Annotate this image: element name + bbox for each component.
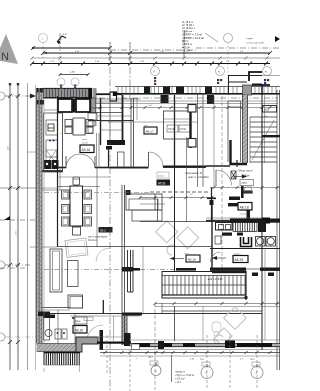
entry line y108 xyxy=(88,107,102,109)
corner gray block xyxy=(91,98,96,113)
stair newel xyxy=(244,296,247,299)
common area label xyxy=(238,169,254,186)
grid leader A xyxy=(42,43,44,61)
wall line x203 xyxy=(202,93,204,187)
wall right of door xyxy=(95,167,110,169)
entry vertical walls xyxy=(100,98,102,145)
svg-text:ПР.1: ПР.1 xyxy=(200,359,205,361)
grey jamb top xyxy=(93,88,97,98)
line x171 bottom xyxy=(171,355,173,382)
dim line y187 xyxy=(210,187,280,189)
fridge symbol xyxy=(48,124,54,131)
left thin line xyxy=(30,246,57,248)
dimension line row 1 xyxy=(32,47,34,49)
top-right note xyxy=(246,36,280,45)
left dim lines xyxy=(9,83,11,370)
label box 1 xyxy=(245,187,252,192)
svg-text:▪ 12.4: ▪ 12.4 xyxy=(175,382,182,384)
dashdot y270 xyxy=(140,269,176,271)
north arrow xyxy=(0,34,18,64)
wall y222 xyxy=(140,221,210,223)
boxlet band xyxy=(110,92,117,101)
svg-text:18.5м: 18.5м xyxy=(180,128,187,131)
thin left face xyxy=(35,85,37,370)
dim below stair xyxy=(155,303,280,305)
wall x99 upper xyxy=(98,133,100,168)
beam header xyxy=(163,166,206,168)
svg-text:АБ.17: АБ.17 xyxy=(146,130,154,134)
thin x203 bottom xyxy=(202,306,204,341)
grid line left 1 xyxy=(5,95,36,97)
bath partition x58 xyxy=(57,310,59,345)
stair lower block xyxy=(162,272,246,299)
wall x100 dark xyxy=(100,330,104,350)
wc fixtures bl xyxy=(55,329,67,339)
dimension line row 3 (grey) xyxy=(32,57,280,59)
axis stub x130 xyxy=(129,42,131,98)
right exterior wall xyxy=(276,90,278,370)
line y177 xyxy=(57,176,110,178)
level mark corridor xyxy=(234,174,247,179)
svg-text:АБ.19: АБ.19 xyxy=(235,258,244,262)
centerline dash top xyxy=(110,49,196,51)
svg-text:б: б xyxy=(153,70,155,74)
arrow left 1 xyxy=(30,94,36,99)
top exterior wall with glazing hatch xyxy=(43,88,92,98)
floor diamonds br xyxy=(214,307,246,346)
framed window box 2 xyxy=(76,99,90,112)
dim line y107 xyxy=(95,107,278,109)
pier box top xyxy=(188,105,196,113)
svg-text:N: N xyxy=(1,51,9,63)
wall line x197 xyxy=(197,93,199,187)
chair left 2 xyxy=(62,205,70,214)
small table cluster xyxy=(65,118,93,135)
wall left of door xyxy=(58,167,66,169)
wall y269 xyxy=(210,268,246,271)
level arrow mid xyxy=(170,257,184,261)
entry line h1 xyxy=(96,98,140,100)
toilet U xyxy=(241,237,252,247)
grid bubble D xyxy=(263,67,272,76)
svg-text:▪▪ 25.3 м²: ▪▪ 25.3 м² xyxy=(175,378,185,381)
dark pieces below xyxy=(252,273,258,277)
wall x211 lower xyxy=(211,188,213,223)
grid bubble left 3 xyxy=(0,333,5,341)
ticks y107 xyxy=(99,106,272,109)
wall seg dark y313 xyxy=(122,313,142,316)
wall stub v xyxy=(247,206,251,222)
grid bubble bottom 2 xyxy=(201,367,213,379)
dimension line row 2 xyxy=(43,52,270,54)
inner wall face line xyxy=(95,100,278,102)
pier box bottom xyxy=(188,139,196,148)
chair top xyxy=(73,177,80,185)
wall x103 xyxy=(102,300,104,314)
dark seg y313 left xyxy=(38,312,50,317)
svg-text:АП.В: АП.В xyxy=(158,182,165,186)
axis line x110 xyxy=(109,42,111,390)
door arc bed xyxy=(96,248,110,262)
dash x107 xyxy=(106,335,108,375)
svg-text:ап.1/ет.б ур.74.98: ап.1/ет.б ур.74.98 xyxy=(246,43,264,45)
chair left 3 xyxy=(62,217,70,226)
interior wall x57 xyxy=(57,96,59,247)
hall lines xyxy=(44,96,75,112)
left dim line 3 xyxy=(27,83,29,370)
axis centerline xyxy=(44,97,278,99)
chair bottom xyxy=(73,227,81,235)
wall x237 stub xyxy=(236,160,238,167)
rect inner line xyxy=(164,118,191,120)
thin wall x214 upper xyxy=(213,96,215,187)
svg-text:студио: студио xyxy=(246,38,254,40)
top edge dark seg xyxy=(252,84,262,86)
label framed mid xyxy=(144,125,157,134)
grid bubble A top xyxy=(39,34,48,43)
pr labels xyxy=(167,125,191,132)
thin wall x186 xyxy=(186,137,188,222)
label hol2 framed xyxy=(184,253,200,262)
wall x174 bottom xyxy=(174,306,176,341)
apartment label xyxy=(185,171,209,179)
mark under bubble C xyxy=(217,79,222,84)
blob x108 xyxy=(106,146,112,150)
grid bubble F xyxy=(71,78,79,86)
wall x131a xyxy=(130,98,132,167)
svg-text:Апартамент В: Апартамент В xyxy=(185,171,202,175)
bath door arc xyxy=(211,252,221,262)
entry line h4 xyxy=(100,120,122,122)
kitchen right edge xyxy=(62,113,64,172)
crossbar x211 xyxy=(207,198,216,200)
svg-text:тераса ▪▪▪: тераса ▪▪▪ xyxy=(175,372,186,374)
svg-text:ПР.Х: ПР.Х xyxy=(242,181,248,185)
toilet light xyxy=(212,322,221,337)
left dim crossing xyxy=(0,187,42,189)
svg-text:39.24 м²: 39.24 м² xyxy=(88,239,97,242)
interior line x97 xyxy=(96,168,98,247)
rug tilted xyxy=(65,238,88,257)
wall y246 xyxy=(57,246,212,248)
svg-text:◄16 х 17.5/30: ◄16 х 17.5/30 xyxy=(207,278,223,281)
grey jamb block xyxy=(243,85,252,95)
wall y313 xyxy=(42,313,262,315)
mid dim line xyxy=(140,197,212,199)
dim line short top xyxy=(59,72,90,76)
chair right 2 xyxy=(84,205,92,214)
inner left face xyxy=(43,96,45,343)
grid bubble bottom 1 xyxy=(151,366,161,376)
grid bubble B xyxy=(151,67,160,76)
bedroom label xyxy=(73,317,87,333)
chair right 1 xyxy=(84,190,92,199)
dashdot left y268 xyxy=(0,267,30,269)
svg-text:▪ 1.2.▪▪: ▪ 1.2.▪▪ xyxy=(182,49,190,53)
dark blob right xyxy=(258,220,266,232)
dashdot y270 left xyxy=(44,269,122,271)
wall y167 left xyxy=(110,167,149,169)
wall x124 xyxy=(124,185,126,345)
svg-text:▪▪▪▪▪: ▪▪▪▪▪ xyxy=(144,125,148,127)
svg-text:АБ.20: АБ.20 xyxy=(75,328,84,332)
line y190 xyxy=(42,189,70,191)
right wall lower xyxy=(261,222,263,350)
wall corridor top xyxy=(206,165,230,167)
small labels xyxy=(148,357,255,361)
left exterior wall xyxy=(37,88,43,343)
wall above stair xyxy=(212,271,246,273)
hatched band x122 xyxy=(122,316,127,346)
corridor door arc xyxy=(216,170,232,186)
dash x130 bottom xyxy=(129,344,131,391)
bottom wall east band xyxy=(131,344,280,347)
thin y218 xyxy=(206,217,268,219)
svg-text:39.2: 39.2 xyxy=(100,229,106,233)
grid dash left 3 xyxy=(5,336,36,338)
small label box xyxy=(132,344,140,350)
svg-text:16х5: 16х5 xyxy=(264,108,270,112)
wall y307 xyxy=(42,307,70,309)
planter xyxy=(50,249,62,292)
thin x96 xyxy=(95,90,97,126)
floor diamonds xyxy=(156,221,199,255)
ticks y187 xyxy=(213,186,279,189)
flag mark left xyxy=(0,216,35,220)
T wall piece xyxy=(241,186,244,198)
svg-text:▪ бруто ▪▪ 74.82 м²: ▪ бруто ▪▪ 74.82 м² xyxy=(175,374,194,377)
annotation text block xyxy=(182,20,218,53)
grid bubble bottom 3 xyxy=(251,367,263,379)
column blob mid band xyxy=(161,95,169,103)
grid bubble C xyxy=(216,67,225,76)
wall x131b xyxy=(133,98,135,167)
svg-text:баня: баня xyxy=(75,320,81,323)
chair right 3 xyxy=(84,217,92,226)
svg-text:Общи части: Общи части xyxy=(238,169,253,173)
entry line h2 xyxy=(96,102,122,104)
section cut mark xyxy=(249,72,270,95)
line y120 xyxy=(88,120,133,122)
col dark2 xyxy=(158,341,164,349)
tall rect furniture xyxy=(68,261,79,287)
column duct xyxy=(118,152,125,167)
blue dot xyxy=(72,317,74,319)
square furniture xyxy=(68,295,83,308)
wall x174 upper xyxy=(174,95,176,167)
entry line h3 xyxy=(88,112,122,114)
wall pier x190 xyxy=(189,104,191,148)
bottom wall inner line xyxy=(100,349,280,351)
dimension line row 4 xyxy=(32,63,270,65)
big rect furniture xyxy=(164,111,191,139)
door at header xyxy=(149,152,164,167)
kitchen label framed xyxy=(80,139,94,153)
label small bl xyxy=(84,317,93,321)
svg-text:1.78: 1.78 xyxy=(70,72,75,74)
door cross mark xyxy=(231,171,236,179)
leader arrow note xyxy=(57,32,67,44)
fridge xyxy=(46,120,58,135)
hatch box xyxy=(46,150,57,164)
comb hatch xyxy=(44,353,81,366)
svg-text:1.2: 1.2 xyxy=(63,32,67,36)
double door xyxy=(66,154,80,168)
band bottom seg xyxy=(96,93,122,95)
dark pier between boxes xyxy=(72,99,76,113)
right inner wall upper xyxy=(261,85,263,222)
bottom wall west xyxy=(97,342,131,344)
svg-text:ниво 1: ниво 1 xyxy=(158,176,165,178)
thin line y122 xyxy=(108,121,197,123)
shaft line right xyxy=(262,75,280,77)
wall step xyxy=(76,337,98,352)
band bottom dark xyxy=(115,93,280,95)
small fixture xyxy=(215,236,221,244)
big door arc xyxy=(87,325,103,341)
grid bubble top right xyxy=(224,34,233,43)
wall x108 xyxy=(108,149,110,168)
dark label pr xyxy=(157,172,171,186)
bath label framed xyxy=(233,254,248,263)
corridor wall seg xyxy=(228,203,247,206)
thin y340 xyxy=(131,339,280,341)
room label hol xyxy=(88,227,113,242)
bath wall left xyxy=(211,205,213,270)
column blob right band xyxy=(207,95,214,104)
col dark xyxy=(124,333,131,346)
svg-text:АБ.18: АБ.18 xyxy=(240,206,249,210)
marks under E xyxy=(60,85,62,87)
bottom dim line xyxy=(100,352,280,354)
duct shaft xyxy=(128,250,134,292)
stair label xyxy=(263,106,277,113)
bath partition x75 xyxy=(74,314,76,346)
vanity frame xyxy=(216,223,233,231)
pier blob xyxy=(225,341,235,349)
wall y311 xyxy=(162,310,262,312)
wall y221 xyxy=(206,220,230,222)
cabinet xyxy=(46,140,58,157)
blob top xyxy=(210,200,214,205)
shower xyxy=(44,315,50,340)
tick line y152 xyxy=(27,151,44,153)
stair right edge xyxy=(245,271,247,300)
stair wall hatched xyxy=(243,95,248,163)
kitchen wall bottom xyxy=(42,170,62,172)
svg-text:АБ.19: АБ.19 xyxy=(188,258,196,262)
grid bubble left 1 xyxy=(0,92,5,100)
thin x113 xyxy=(113,316,115,341)
framed window box 1 xyxy=(58,99,72,112)
svg-text:кухня: кухня xyxy=(82,139,87,141)
band top line xyxy=(115,86,280,88)
wall x122 xyxy=(121,185,123,345)
svg-text:тоалетна: тоалетна xyxy=(240,214,249,216)
dark pier right xyxy=(89,88,93,99)
dark band y233 xyxy=(222,233,232,236)
svg-text:12.3м²: 12.3м² xyxy=(82,142,88,145)
svg-text:ПР.18: ПР.18 xyxy=(168,128,175,131)
dash row y192 xyxy=(150,191,210,193)
towel radiator xyxy=(233,223,257,232)
dash x222 xyxy=(221,96,223,270)
bath wall bottom xyxy=(210,248,280,250)
stair shaft top walls xyxy=(229,76,263,96)
landing lines xyxy=(228,101,242,162)
cooktop dots xyxy=(49,140,51,142)
corridor dark bar xyxy=(229,197,240,201)
sink boxes xyxy=(256,237,276,247)
chair left 1 xyxy=(62,190,70,199)
marks under F xyxy=(74,85,76,87)
svg-text:ниво 1 - 210.46м²: ниво 1 - 210.46м² xyxy=(188,175,209,179)
bottom text block xyxy=(175,372,194,385)
line y116 xyxy=(98,115,131,117)
grid bubble left 2 xyxy=(0,261,5,269)
L wall stair xyxy=(231,140,248,164)
grid bubble E xyxy=(57,78,65,86)
wc label framed xyxy=(238,203,252,216)
stove xyxy=(44,160,51,169)
thin line x143 xyxy=(142,247,144,313)
mark under bubble B xyxy=(154,77,156,85)
thin y337 xyxy=(97,336,131,338)
level arrow left xyxy=(212,256,226,260)
kitchen cabinets xyxy=(44,113,63,172)
sofa xyxy=(126,194,162,210)
dark dash segs xyxy=(176,268,196,271)
bottom terrace wall hatched xyxy=(37,344,79,352)
axis y192 left xyxy=(44,192,150,194)
annotation block divider xyxy=(183,30,185,58)
bubble stubs xyxy=(156,362,257,367)
stair arrow diag xyxy=(252,120,274,160)
stair stringer xyxy=(261,117,263,163)
wall x174 lower xyxy=(174,167,176,271)
wall x96 upper xyxy=(96,133,98,168)
mark under bubble D xyxy=(264,79,269,84)
dash x155 down xyxy=(154,303,156,390)
svg-text:АБ.16: АБ.16 xyxy=(82,148,91,152)
stair upper flight xyxy=(250,117,277,162)
stair mid line xyxy=(162,284,246,286)
wc fixtures xyxy=(88,113,97,133)
svg-text:ПР.2: ПР.2 xyxy=(148,357,153,359)
svg-text:ПР.3: ПР.3 xyxy=(250,359,255,361)
mid landing dark xyxy=(262,135,280,137)
toilet circle xyxy=(45,330,52,337)
dim stubs xyxy=(59,42,61,64)
wall corner blocks xyxy=(37,88,45,93)
dining table xyxy=(70,186,83,226)
dark block duct xyxy=(122,267,134,272)
